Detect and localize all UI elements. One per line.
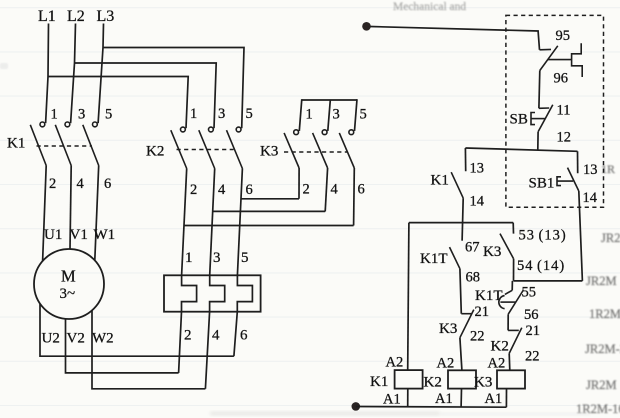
- svg-text:22: 22: [525, 349, 540, 365]
- svg-text:2: 2: [303, 182, 310, 198]
- svg-text:3~: 3~: [60, 286, 76, 302]
- svg-text:A2: A2: [386, 355, 404, 371]
- contactor K3 NC interlock contact 21-22: [460, 310, 474, 338]
- svg-text:5: 5: [246, 106, 253, 122]
- motor M 3-phase: [34, 249, 104, 319]
- svg-text:11: 11: [557, 103, 571, 119]
- contactor K1 main contact pole 5-6: [83, 122, 99, 166]
- contactor K3 main contact pole 3-4: [313, 130, 328, 168]
- contactor K1 main contact pole 3-4: [55, 122, 71, 166]
- wire branch top rail: [465, 148, 577, 151]
- svg-text:SB1: SB1: [529, 176, 555, 192]
- wire L3 to K1 pole 5: [98, 24, 103, 124]
- svg-text:21: 21: [475, 304, 490, 320]
- svg-text:JR2M: JR2M: [586, 274, 617, 288]
- node control supply bottom: [352, 402, 361, 411]
- svg-text:13: 13: [583, 162, 598, 178]
- enclosure dashed boundary (button station): [506, 15, 604, 207]
- wire SB 12 to branch node: [537, 132, 539, 150]
- svg-text:56: 56: [524, 307, 539, 323]
- wire SB1 14 down to node 54: [579, 191, 583, 281]
- contactor K2 main contact pole 1-2: [171, 127, 187, 168]
- wire node to K1T 55: [511, 281, 513, 290]
- svg-text:6: 6: [246, 182, 253, 198]
- contactor coil K2: [448, 370, 476, 388]
- svg-text:SB: SB: [510, 112, 528, 128]
- svg-text:3: 3: [333, 107, 340, 123]
- contactor K3 main contact pole 1-2: [284, 130, 299, 168]
- svg-text:95: 95: [556, 28, 571, 44]
- wire K3-6 down: [353, 168, 356, 226]
- svg-text:4: 4: [331, 182, 339, 198]
- wire node 54 rail: [514, 280, 583, 282]
- svg-text:V1: V1: [70, 227, 88, 243]
- svg-text:2: 2: [49, 176, 56, 192]
- svg-text:A2: A2: [488, 356, 506, 372]
- svg-text:2: 2: [184, 328, 192, 344]
- svg-text:5: 5: [360, 107, 367, 123]
- svg-text:K2: K2: [491, 339, 509, 355]
- wire K3-2 to K2-6: [241, 198, 299, 200]
- wire U2 to FR-6: [40, 304, 234, 357]
- wire K3 bar to pole 5: [355, 99, 358, 131]
- wire K2 A1 to bus: [460, 389, 462, 407]
- wire bottom bus: [356, 406, 507, 409]
- K3 star bridge bar: [302, 99, 357, 101]
- svg-text:K2: K2: [424, 375, 442, 391]
- svg-text:5: 5: [241, 250, 249, 266]
- pushbutton SB NC stop button 11-12: [531, 105, 553, 132]
- wire junction to K3 aux 53: [512, 223, 514, 234]
- svg-text:22: 22: [470, 329, 485, 345]
- svg-text:3: 3: [218, 106, 225, 122]
- wire K2-2 to thermal relay 1: [182, 169, 187, 276]
- contactor K3 main contact pole 5-6: [339, 130, 354, 168]
- svg-text:L3: L3: [97, 8, 115, 25]
- svg-text:68: 68: [466, 270, 481, 286]
- svg-text:W1: W1: [94, 227, 116, 243]
- svg-text:13: 13: [470, 161, 485, 177]
- svg-text:1: 1: [306, 107, 313, 123]
- wire K2-6 to thermal relay 5: [237, 169, 242, 276]
- svg-text:1: 1: [190, 106, 197, 122]
- svg-text:U1: U1: [44, 227, 62, 243]
- svg-text:K2: K2: [146, 144, 164, 160]
- svg-text:Mechanical and: Mechanical and: [393, 1, 466, 13]
- svg-text:6: 6: [240, 328, 248, 344]
- svg-text:K1: K1: [431, 173, 449, 189]
- svg-text:K3: K3: [474, 375, 492, 391]
- thermal relay heater element 1-2: [179, 275, 197, 373]
- wire K3-4 down: [325, 168, 327, 211]
- wire K1-4 to motor V1: [70, 166, 71, 250]
- timer K1T delayed-opening NC contact 55-56: [499, 290, 524, 314]
- svg-text:1: 1: [51, 107, 58, 123]
- wire K1 A1 to bus: [407, 389, 409, 407]
- svg-text:A1: A1: [485, 391, 503, 407]
- wire K3-6 to K2-2: [184, 225, 354, 227]
- wire K3 bar to pole 1: [299, 99, 302, 131]
- wire holding junction rail: [409, 222, 513, 224]
- contactor coil K1: [395, 370, 423, 389]
- contactor coil K3: [497, 370, 525, 388]
- wire rail to K1 aux 13: [464, 148, 466, 171]
- svg-text:JR2: JR2: [601, 231, 620, 245]
- svg-text:14: 14: [583, 190, 598, 206]
- wire L1 to K2 terminal 1: [48, 77, 188, 129]
- wire K1-6 to motor W1: [95, 166, 99, 261]
- svg-text:67: 67: [465, 240, 480, 256]
- thermal relay FR body: [164, 275, 261, 311]
- timer K1T NO contact 67-68: [450, 247, 460, 269]
- svg-text:4: 4: [212, 328, 220, 344]
- wire V2 to FR-2: [66, 319, 179, 373]
- wire L2 to K1 pole 3: [71, 24, 76, 124]
- svg-text:1: 1: [185, 250, 193, 266]
- K3 mechanical linkage: [284, 151, 348, 153]
- wire rail to SB1 13: [577, 151, 579, 173]
- wire L2 to K2 terminal 3: [75, 63, 217, 128]
- svg-text:K1: K1: [370, 374, 388, 390]
- wire K1T 68 to K3 NC 21: [460, 269, 461, 314]
- svg-text:K1: K1: [7, 136, 25, 152]
- wire junction to K1 coil A2: [408, 223, 409, 371]
- svg-text:A1: A1: [435, 391, 453, 407]
- pushbutton SB1 NO start button 13-14: [557, 168, 579, 191]
- svg-text:L1: L1: [38, 8, 56, 25]
- wire K2-4 to thermal relay 3: [210, 169, 215, 276]
- svg-text:53(13): 53(13): [519, 228, 567, 244]
- svg-text:3: 3: [213, 250, 221, 266]
- svg-text:4: 4: [218, 182, 226, 198]
- svg-text:L2: L2: [67, 8, 85, 25]
- svg-text:14: 14: [470, 194, 485, 210]
- wire K3 54 to node: [513, 259, 515, 281]
- contactor K2 main contact pole 5-6: [227, 127, 243, 168]
- wire K3-4 to K2-4: [213, 210, 326, 212]
- svg-text:JR2M: JR2M: [586, 378, 617, 392]
- svg-text:1R2M: 1R2M: [589, 307, 620, 321]
- svg-text:M: M: [61, 267, 76, 286]
- wire K1 aux 14 to K1T 67: [462, 198, 463, 241]
- svg-text:55: 55: [522, 285, 537, 301]
- contactor K1 main contact pole 1-2: [30, 122, 46, 166]
- svg-text:54(14): 54(14): [517, 258, 565, 274]
- wire L1 to K1 pole 1: [46, 24, 49, 124]
- svg-text:JR2M-2: JR2M-2: [585, 342, 620, 356]
- svg-text:12: 12: [557, 130, 572, 146]
- wire supply to FR contact 95: [370, 27, 540, 50]
- wire FR 96 to SB 11: [538, 71, 541, 109]
- svg-text:5: 5: [105, 107, 112, 123]
- thermal relay heater element 5-6: [234, 275, 253, 356]
- wire K1T 56 to K2 NC 21: [507, 314, 509, 330]
- svg-text:U2: U2: [42, 331, 60, 347]
- svg-text:K3: K3: [260, 144, 278, 160]
- wire K3-2 down: [298, 168, 300, 199]
- svg-text:3: 3: [78, 107, 85, 123]
- svg-text:K3: K3: [483, 244, 501, 260]
- contactor K3 auxiliary NO contact 53-54: [500, 234, 514, 259]
- thermal relay FR NC contact 95-96: [540, 43, 583, 77]
- svg-text:1R: 1R: [601, 162, 615, 176]
- svg-text:21: 21: [526, 323, 541, 339]
- contactor K1 auxiliary NO contact 13-14: [451, 172, 463, 198]
- svg-text:2: 2: [190, 182, 197, 198]
- svg-text:K3: K3: [439, 321, 457, 337]
- svg-text:4: 4: [77, 176, 85, 192]
- contactor K2 NC interlock contact 21-22: [508, 328, 522, 354]
- svg-text:K1T: K1T: [420, 251, 448, 267]
- svg-text:V2: V2: [67, 331, 85, 347]
- svg-text:6: 6: [358, 182, 365, 198]
- thermal relay heater element 3-4: [205, 275, 224, 389]
- K1 mechanical linkage: [37, 145, 93, 147]
- svg-text:A2: A2: [437, 356, 455, 372]
- wire L3 to K2 terminal 5: [103, 48, 244, 129]
- svg-text:6: 6: [104, 176, 111, 192]
- wire K3 NC 22 to K2 coil A2: [460, 338, 462, 371]
- wire K3 A1 riser: [505, 389, 507, 408]
- K2 mechanical linkage: [177, 149, 234, 151]
- contactor K2 main contact pole 3-4: [199, 127, 215, 168]
- wire K1-2 to motor U1: [43, 166, 47, 262]
- svg-text:W2: W2: [92, 331, 114, 347]
- wire K3 bar to pole 3: [328, 100, 331, 131]
- wire W2 to FR-4: [92, 310, 205, 388]
- svg-text:96: 96: [554, 71, 569, 87]
- svg-text:A1: A1: [383, 392, 401, 408]
- node control supply left: [362, 22, 371, 31]
- wire K2 NC 22 to K3 coil A2: [508, 353, 511, 370]
